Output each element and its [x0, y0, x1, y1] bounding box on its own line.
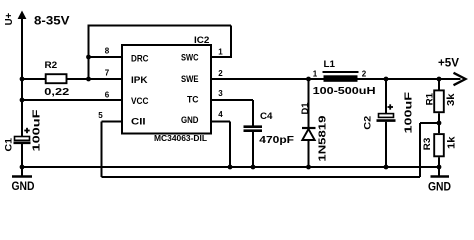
wire: pin 5 stub: [102, 121, 123, 123]
svg-text:2: 2: [218, 69, 223, 78]
plus mark C2: [388, 106, 394, 108]
wire: pin 3 to C4: [211, 99, 253, 101]
wire: vertical down to pin 1: [230, 26, 232, 58]
wire: top feedback wire to SWC: [88, 25, 232, 27]
svg-text:1k: 1k: [446, 136, 458, 149]
svg-text:R2: R2: [45, 60, 58, 71]
wire: C4 bottom to GND rail: [252, 132, 254, 167]
svg-text:5: 5: [98, 111, 103, 120]
ground symbol left: [12, 175, 32, 177]
node: junction VCC on input rail: [20, 98, 25, 103]
wire: left rail below C1 to GND bar: [21, 144, 23, 177]
svg-text:3k: 3k: [445, 93, 457, 106]
node: C2 junction on rail: [384, 77, 389, 82]
node: junction at R2/pin7/pin8 vertical: [86, 77, 91, 82]
svg-text:6: 6: [105, 90, 110, 99]
svg-text:8: 8: [105, 47, 110, 56]
capacitor C2 (polarized): [385, 79, 387, 114]
capacitor C4: [244, 125, 263, 128]
wire: pin 4 to GND rail: [211, 121, 230, 123]
svg-text:D1: D1: [300, 102, 311, 115]
svg-text:TC: TC: [187, 95, 199, 106]
wire: pin 8 stub: [89, 56, 123, 58]
wire: main output rail (pin 2 SWE to +5V arrow): [211, 78, 461, 80]
svg-text:100uF: 100uF: [403, 91, 415, 133]
ground symbol right: [431, 175, 450, 177]
node: divider junction: [437, 121, 442, 126]
svg-text:2: 2: [362, 69, 367, 78]
wire: left input rail vertical: [21, 18, 23, 137]
svg-text:C4: C4: [260, 111, 273, 122]
svg-text:1N5819: 1N5819: [317, 115, 329, 161]
svg-text:0,22: 0,22: [44, 86, 69, 98]
inductor L1: [323, 71, 359, 73]
wire: GND rail: [22, 166, 439, 168]
svg-text:C2: C2: [363, 116, 374, 130]
svg-text:GND: GND: [428, 179, 451, 192]
svg-text:R1: R1: [424, 92, 435, 105]
svg-text:C1: C1: [4, 137, 15, 151]
svg-text:VCC: VCC: [131, 96, 149, 107]
resistor R3: [434, 134, 444, 156]
svg-text:4: 4: [218, 110, 223, 119]
svg-text:MC34063-DIL: MC34063-DIL: [154, 133, 208, 143]
svg-text:U+: U+: [3, 13, 15, 26]
wire: feedback vertical right: [419, 123, 421, 177]
node: R1 junction on rail: [437, 77, 442, 82]
svg-text:CII: CII: [131, 117, 146, 128]
svg-text:SWE: SWE: [181, 74, 199, 85]
svg-text:GND: GND: [12, 179, 35, 192]
node: D1 junction on rail: [306, 77, 311, 82]
svg-text:SWC: SWC: [181, 52, 199, 63]
svg-text:7: 7: [105, 69, 110, 78]
svg-text:IC2: IC2: [194, 35, 209, 45]
wire: pin 1 stub: [211, 56, 232, 58]
svg-text:DRC: DRC: [131, 54, 149, 65]
svg-text:100uF: 100uF: [30, 109, 42, 152]
svg-text:1: 1: [313, 69, 318, 78]
diode D1: [308, 79, 310, 128]
svg-text:IPK: IPK: [131, 75, 148, 86]
svg-text:1: 1: [218, 48, 223, 57]
svg-text:GND: GND: [181, 115, 199, 126]
svg-text:3: 3: [218, 89, 223, 98]
svg-text:R3: R3: [422, 138, 433, 151]
svg-text:+5V: +5V: [438, 56, 459, 70]
supply arrow (input): [18, 11, 27, 20]
svg-text:8-35V: 8-35V: [34, 14, 70, 28]
resistor R1: [438, 79, 440, 90]
node: junction R2 left on input rail: [20, 77, 25, 82]
wire: feedback vertical left: [101, 122, 103, 178]
svg-text:470pF: 470pF: [259, 134, 294, 146]
capacitor C1 (polarized): [15, 137, 30, 141]
wire: VCC pin 6 to input rail: [22, 99, 122, 101]
wire: feedback bottom horizontal: [102, 176, 421, 178]
resistor R2: [46, 74, 67, 83]
wire: input rail to R2: [22, 78, 45, 80]
svg-text:L1: L1: [324, 59, 336, 70]
node: GND junctions: [20, 165, 25, 170]
wire: R2 right to IC pin 7: [67, 78, 122, 80]
wire: vertical from top wire down to pin7 junction: [88, 25, 90, 80]
svg-text:100-500uH: 100-500uH: [313, 85, 376, 97]
wire: feedback to divider junction: [420, 122, 439, 124]
op IC2 box MC34063: [122, 45, 211, 134]
output arrow: [454, 73, 466, 85]
plus mark C1: [24, 130, 29, 132]
